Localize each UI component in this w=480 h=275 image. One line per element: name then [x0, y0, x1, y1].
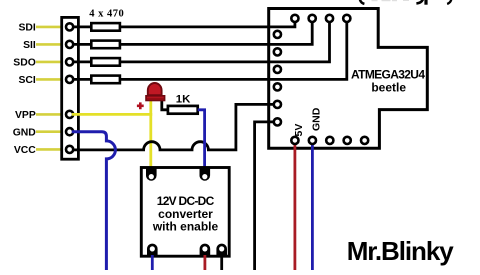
svg-text:VPP: VPP — [15, 110, 36, 121]
cut-off title fragment p stem — [424, 0, 427, 5]
cut-off title faint letter bottoms — [372, 0, 410, 1]
wire resistor R2 to pad D16 — [120, 18, 312, 44]
LED D1 dome — [148, 83, 162, 95]
wire stub SDI (yellow) — [36, 26, 61, 29]
pin 7 VCC — [66, 146, 73, 153]
U1 pad left 6 (GND) — [274, 118, 281, 125]
U1 pad bottom 4 — [344, 137, 351, 144]
wire U2 GND down (blue) — [151, 255, 154, 270]
svg-text:5V: 5V — [293, 124, 305, 137]
cut-off title fragment ) — [447, 0, 451, 4]
resistor R4 — [91, 76, 120, 84]
U1 pad 5V (bottom row 1) — [291, 137, 298, 144]
svg-text:with enable: with enable — [152, 220, 219, 234]
wire GND (blue) with hop — [72, 132, 116, 270]
svg-text:VCC: VCC — [14, 145, 36, 156]
U1 pad GND (bottom row 2) — [309, 137, 316, 144]
pin 5 VPP — [66, 111, 73, 118]
wire R5 to DC-DC Vin (blue) — [198, 110, 205, 168]
wire beetle 5V down (red) — [293, 140, 296, 270]
wire VCC to beetle 5V pad (black, hops over yellow and blue) — [70, 104, 278, 149]
wire stub SCI (yellow) — [36, 78, 61, 81]
pin 2 SII — [66, 41, 73, 48]
U1 pad A3 (top row 4) — [343, 15, 350, 22]
cut-off title fragment ( — [360, 0, 365, 4]
cut-off title fragment y descender — [416, 0, 423, 3]
wire pin4 to resistor R4 — [70, 78, 93, 81]
U2 pad EN (top left) — [146, 168, 157, 180]
U2 pad 12V (bottom middle) — [200, 244, 211, 256]
LED D1 flange — [146, 96, 165, 101]
U2 pad VIN (top right) — [200, 168, 211, 180]
resistor R1 — [91, 23, 120, 31]
DC-DC converter module U2 — [141, 168, 229, 257]
LED D1 plus sign — [137, 102, 144, 109]
wire pin2 to resistor R2 — [70, 43, 93, 46]
wire LED anode to DC-DC enable (yellow) — [149, 99, 152, 168]
pin 6 GND — [66, 128, 73, 135]
pin 4 SCI — [66, 76, 73, 83]
LED D1 cathode lead — [162, 99, 168, 110]
svg-text:1K: 1K — [176, 93, 191, 105]
connector J1 (ISP header) — [62, 17, 79, 159]
wire stub VPP (yellow) — [36, 113, 61, 116]
wire VPP (yellow) — [72, 113, 152, 116]
svg-text:SDO: SDO — [13, 58, 36, 69]
LED D1 flange band — [147, 98, 164, 100]
U1 pad A1 (top row 2) — [309, 15, 316, 22]
wire stub SII (yellow) — [36, 43, 61, 46]
U1 pad A0 (top row 1) — [291, 15, 298, 22]
svg-text:GND: GND — [311, 107, 323, 131]
svg-text:Mr.Blinky: Mr.Blinky — [347, 236, 455, 266]
resistor R3 — [91, 58, 120, 66]
wire beetle GND pad down (black) — [255, 122, 278, 270]
U1 pad left 5 (5V) — [274, 101, 281, 108]
U1 pad left 3 — [274, 66, 281, 73]
U2 pad GND2 (bottom right) — [216, 244, 227, 256]
U1 pad A2 (top row 3) — [326, 15, 333, 22]
svg-text:SCI: SCI — [18, 75, 35, 86]
wire pin1 to resistor R1 — [70, 25, 93, 28]
wire stub SDO (yellow) — [36, 61, 61, 64]
U1 pad left 2 — [274, 48, 281, 55]
wire pin3 to resistor R3 — [70, 61, 93, 64]
wire resistor R3 to pad D14 — [120, 18, 330, 62]
svg-text:GND: GND — [13, 127, 37, 138]
resistor R5 1K — [168, 106, 198, 114]
U2 pad GND (bottom left) — [147, 244, 158, 256]
resistor R2 — [91, 41, 120, 49]
title (cut off at top) — [360, 0, 452, 5]
svg-text:SII: SII — [23, 40, 36, 51]
wire beetle GND down (blue) — [311, 140, 314, 270]
wire resistor R1 to pad D15 — [120, 18, 295, 27]
svg-text:beetle: beetle — [371, 80, 406, 94]
svg-text:ATMEGA32U4: ATMEGA32U4 — [351, 67, 425, 81]
U1 pad bottom 5 — [361, 137, 368, 144]
U1 pad left 1 — [274, 31, 281, 38]
pin 1 SDI — [66, 23, 73, 30]
wire U2 GND2 down (black) — [220, 255, 223, 270]
module U1 ATMEGA32U4 beetle outline — [269, 9, 428, 149]
pin 3 SDO — [66, 58, 73, 65]
U1 pad bottom 3 — [326, 137, 333, 144]
svg-text:SDI: SDI — [18, 23, 35, 34]
wire resistor R4 to pad D17 — [120, 18, 347, 79]
wire stub GND (yellow) — [36, 130, 61, 133]
wire stub VCC (yellow) — [36, 148, 61, 151]
wire U2 12V down (red) — [203, 255, 206, 270]
U1 pad left 4 — [274, 83, 281, 90]
svg-text:4 x 470: 4 x 470 — [89, 8, 124, 19]
